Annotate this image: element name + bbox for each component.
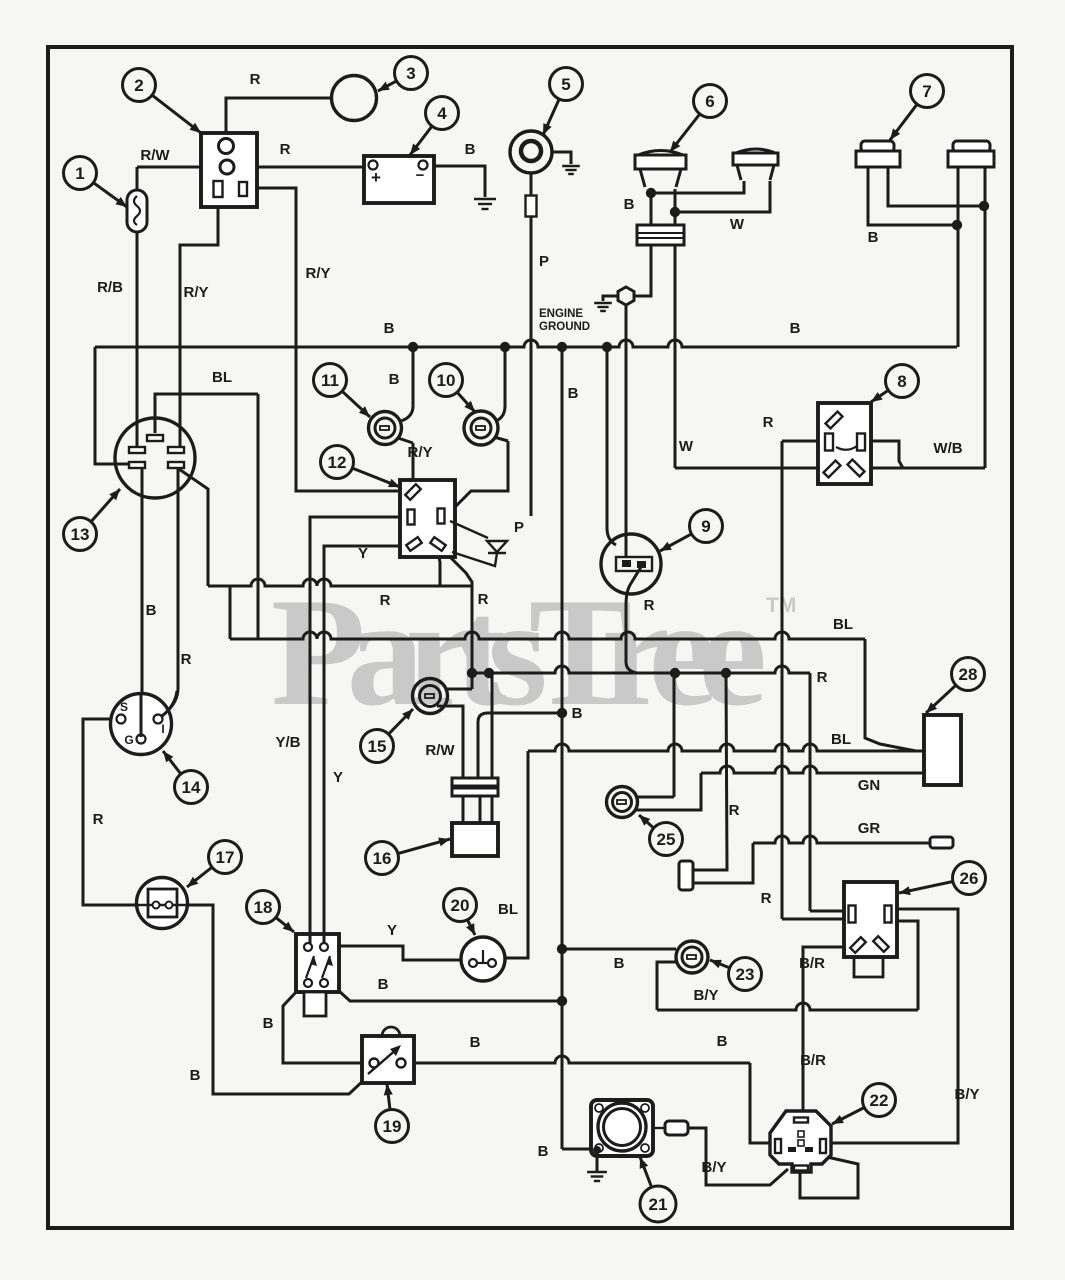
wire R/Y: lamp 11 to module 12 — [398, 438, 413, 443]
callout 25 — [650, 823, 683, 856]
callout 2 — [123, 69, 156, 102]
callout 4 — [426, 97, 459, 130]
svg-text:21: 21 — [649, 1195, 668, 1214]
bulb 25 — [607, 787, 638, 818]
svg-text:16: 16 — [373, 849, 392, 868]
horn 3 — [332, 76, 377, 121]
svg-text:B: B — [263, 1015, 274, 1032]
callout 12 — [321, 446, 354, 479]
svg-text:R: R — [817, 669, 828, 686]
svg-text:Y: Y — [333, 769, 343, 786]
relay 17 — [137, 878, 188, 929]
key switch 14 — [111, 694, 172, 755]
starter switch 26 — [844, 882, 897, 957]
hour meter connector — [665, 1121, 688, 1135]
svg-text:B: B — [572, 705, 583, 722]
svg-text:2: 2 — [134, 76, 143, 95]
wire R: long vertical from switch 8 down to starter switch 26 — [781, 441, 784, 919]
module 12 — [400, 480, 455, 557]
svg-text:B/Y: B/Y — [701, 1159, 726, 1176]
callout 9 — [690, 510, 723, 543]
bulb 10 — [464, 411, 498, 445]
svg-text:W: W — [679, 438, 694, 455]
svg-text:W/B: W/B — [933, 440, 962, 457]
callout 5 — [550, 68, 583, 101]
wire R horizontal bus H3 y=673 — [472, 666, 810, 673]
ground battery — [474, 198, 496, 200]
svg-text:B: B — [568, 385, 579, 402]
svg-text:Y/B: Y/B — [275, 734, 300, 751]
wire R/Y: regulator pin right to module 12 — [242, 188, 245, 196]
svg-text:G: G — [124, 733, 133, 747]
wire BL horizontal bus H2 y=639 — [230, 632, 865, 639]
svg-text:B/Y: B/Y — [693, 987, 718, 1004]
svg-text:10: 10 — [437, 371, 456, 390]
wire R: connector 13 to key switch 14 I terminal — [177, 468, 180, 688]
svg-text:R: R — [761, 890, 772, 907]
callout 13 — [64, 518, 97, 551]
svg-text:28: 28 — [959, 665, 978, 684]
callout 21 — [640, 1186, 676, 1222]
svg-text:18: 18 — [254, 898, 273, 917]
wire: hex to engine ground — [603, 296, 617, 301]
svg-text:B/R: B/R — [799, 955, 825, 972]
wire Y: module 12 lower pin down to interlock 18 — [324, 546, 412, 934]
svg-text:R: R — [644, 597, 655, 614]
svg-text:B: B — [378, 976, 389, 993]
svg-text:BL: BL — [831, 731, 851, 748]
wire R: connector 13 diag to R bus — [176, 467, 208, 586]
wire R/W: bulb 15 to ignition coil 16 — [437, 706, 463, 779]
bulb 11 — [369, 412, 402, 445]
regulator 28 — [924, 715, 961, 785]
connector tab 16 area — [679, 861, 693, 890]
svg-text:P: P — [514, 519, 524, 536]
wire B: bus to lamp 11 — [412, 347, 415, 408]
svg-text:R/Y: R/Y — [407, 444, 432, 461]
wire W/B: lamp 7 right leg down to light switch 8 — [984, 167, 987, 468]
wire B/Y: hour meter 21 to clutch switch 22 — [688, 1128, 788, 1185]
wire R horizontal bus H1 y=586 — [208, 579, 472, 586]
svg-text:7: 7 — [922, 82, 931, 101]
svg-text:GN: GN — [858, 777, 881, 794]
wire Y: interlock 18 to switch 20 — [339, 946, 462, 960]
callout 23 — [729, 958, 762, 991]
svg-text:23: 23 — [736, 965, 755, 984]
svg-text:BL: BL — [833, 616, 853, 633]
svg-text:1: 1 — [75, 164, 84, 183]
callout 6 — [694, 85, 727, 118]
svg-text:B: B — [538, 1143, 549, 1160]
svg-text:R/B: R/B — [97, 279, 123, 296]
svg-text:12: 12 — [328, 453, 347, 472]
wire B/Y: bulb 23 loop to starter switch 26 — [657, 962, 677, 1010]
wire B: B vertical to bulb 23 — [562, 948, 676, 951]
wire P: coil 5 down to module 12 — [530, 173, 533, 196]
wire R: key switch 14 S to relay 17 — [83, 719, 137, 905]
wire BL horizontal bus H4 y=751 — [528, 744, 916, 751]
wire B/Y: starter switch 26 right to clutch sw 22 — [827, 909, 958, 1143]
fuse link on P wire — [526, 196, 537, 217]
wire B: switch 19 to clutch switch 22 left pin — [413, 1056, 750, 1063]
wire R: regulator top to horn — [226, 98, 332, 140]
relay 9 — [601, 534, 661, 594]
callout 28 — [952, 658, 985, 691]
wire GN: bulb 25 to regulator 28 — [634, 773, 701, 810]
wire BL: H4 left end down to switch 20 — [505, 751, 528, 958]
wire R: bulb 25 to H3 — [637, 796, 674, 799]
svg-text:R/Y: R/Y — [183, 284, 208, 301]
callout 3 — [395, 57, 428, 90]
svg-text:4: 4 — [437, 104, 447, 123]
svg-text:−: − — [416, 167, 425, 184]
headlight 6 left lamp — [638, 151, 683, 156]
wire W: lamp leg down to light switch 8 — [674, 245, 677, 468]
svg-text:GR: GR — [858, 820, 881, 837]
switch 20 — [461, 937, 505, 981]
svg-text:B/R: B/R — [800, 1052, 826, 1069]
wire: block down to engine ground hex — [635, 245, 651, 296]
bulb 15 — [413, 679, 448, 714]
wire B: coil 16 center tap to B vertical — [478, 713, 562, 779]
svg-text:R/Y: R/Y — [305, 265, 330, 282]
callout 17 — [209, 841, 242, 874]
svg-text:B: B — [190, 1067, 201, 1084]
engine ground hex bolt — [618, 287, 634, 305]
svg-text:B: B — [146, 602, 157, 619]
svg-text:15: 15 — [368, 737, 387, 756]
wire: bulb 15 to H3 — [447, 688, 472, 691]
regulator 2 — [201, 133, 257, 207]
svg-text:B: B — [790, 320, 801, 337]
svg-text:B: B — [868, 229, 879, 246]
svg-text:R: R — [181, 651, 192, 668]
svg-text:25: 25 — [657, 830, 676, 849]
svg-text:6: 6 — [705, 92, 714, 111]
headlight 6 connector block — [637, 225, 684, 245]
svg-text:14: 14 — [182, 778, 201, 797]
wire: H4+BL merge into regulator 28 — [916, 750, 924, 753]
svg-text:9: 9 — [701, 517, 710, 536]
callout 16 — [366, 842, 399, 875]
svg-text:R/W: R/W — [140, 147, 170, 164]
svg-text:17: 17 — [216, 848, 235, 867]
ignition unit 16 coil — [452, 778, 498, 786]
wire B: bus to lamp 10 — [504, 347, 507, 408]
svg-text:11: 11 — [321, 371, 339, 390]
svg-text:22: 22 — [870, 1091, 889, 1110]
wire B: taillight 7 legs — [888, 167, 984, 206]
wire R: module 12 diag down to H3 — [446, 553, 472, 586]
svg-text:26: 26 — [960, 869, 979, 888]
headlight 6 right lamp — [736, 149, 775, 153]
svg-text:B: B — [384, 320, 395, 337]
callout 26 — [953, 862, 986, 895]
wire W: headlight pair 6 cross links — [651, 181, 744, 193]
wire Y/B: module 12 mid pin down to interlock 18 — [310, 517, 407, 934]
fuse 1 — [127, 190, 147, 232]
wire BL: H2 right end down to regulator 28 — [865, 639, 916, 751]
wire R: regulator to battery + — [234, 166, 369, 169]
svg-text:B: B — [389, 371, 400, 388]
switch 19 — [382, 1027, 400, 1036]
svg-text:R: R — [280, 141, 291, 158]
wire stub fuse top — [136, 167, 139, 191]
svg-text:5: 5 — [561, 75, 570, 94]
clutch switch 22 — [770, 1111, 831, 1172]
svg-text:19: 19 — [383, 1117, 402, 1136]
taillight 7 left lamp — [861, 141, 894, 152]
wire B: lamp 7 left leg down to bus corner — [957, 167, 960, 347]
callout 20 — [444, 889, 477, 922]
svg-text:3: 3 — [406, 64, 415, 83]
wire R: H3 down to connector tab — [694, 673, 727, 870]
svg-text:GROUND: GROUND — [539, 321, 590, 333]
wire: coil 16 right tap up to H3 — [491, 673, 494, 779]
callout 1 — [64, 157, 97, 190]
wire B: connector 13 to key switch 14 — [141, 468, 144, 712]
wire B: interlock 18 to B vertical — [339, 991, 562, 1001]
svg-text:R: R — [729, 802, 740, 819]
wire B: long vertical to hour meter 21 — [561, 347, 564, 1149]
svg-text:B/Y: B/Y — [954, 1086, 979, 1103]
callout 8 — [886, 365, 919, 398]
svg-text:S: S — [120, 700, 128, 714]
callout 19 — [376, 1110, 409, 1143]
svg-text:I: I — [161, 722, 164, 736]
svg-text:R/W: R/W — [425, 742, 455, 759]
svg-text:B: B — [614, 955, 625, 972]
wire R: H3 right end down to starter switch 26 — [809, 673, 812, 911]
wire: clutch switch 22 bottom loop — [800, 1157, 858, 1198]
wire B: battery - to ground — [428, 166, 485, 197]
ignition coil 5 — [510, 131, 552, 173]
wire BL: connector 13 top to BL bus — [155, 394, 258, 433]
wire bus left end down to connector 13 — [95, 347, 130, 464]
light switch 8 — [818, 403, 871, 484]
callout 7 — [911, 75, 944, 108]
wire R/Y: regulator pin left down to 13 — [180, 197, 218, 448]
svg-text:Y: Y — [358, 545, 368, 562]
svg-text:ENGINE: ENGINE — [539, 308, 583, 320]
wire B: headlight 6 left leg to block — [650, 189, 653, 225]
wire B: relay 9 feed from bus — [607, 347, 616, 545]
wire R: module 12 lower pin to H1 — [438, 553, 440, 586]
callout 11 — [314, 364, 347, 397]
svg-text:B: B — [470, 1034, 481, 1051]
svg-text:R: R — [93, 811, 104, 828]
main B ground bus wire y=347 — [95, 340, 957, 347]
svg-text:W: W — [730, 216, 745, 233]
svg-text:B: B — [624, 196, 635, 213]
interlock switch 18 — [296, 934, 339, 992]
wire R/W: regulator to fuse — [137, 166, 220, 169]
wire R: switch 8 left pin corner — [782, 440, 818, 443]
callout 18 — [247, 891, 280, 924]
wire B: relay 17 right to bottom run — [188, 905, 365, 1094]
svg-text:8: 8 — [897, 372, 906, 391]
wire B: interlock 18 down left to switch 19 — [283, 991, 362, 1063]
svg-text:R: R — [250, 71, 261, 88]
svg-text:B: B — [717, 1033, 728, 1050]
callout 15 — [361, 730, 394, 763]
svg-text:BL: BL — [498, 901, 518, 918]
svg-text:B: B — [465, 141, 476, 158]
wire W/B: switch 8 to lamps — [871, 467, 985, 470]
wire GR: connector tab to plug — [694, 843, 753, 883]
connector 13 — [115, 418, 195, 498]
wire R/B: fuse down to connector 13 — [136, 231, 139, 450]
bulb 23 — [676, 941, 708, 973]
callout 14 — [175, 771, 208, 804]
wire B/R: switch 26 lower pin down to clutch sw 22 — [803, 947, 851, 1111]
svg-text:BL: BL — [212, 369, 232, 386]
wire: relay 9 output down to H3 — [626, 567, 641, 673]
battery 4 — [364, 156, 434, 203]
hour meter 21 — [591, 1100, 653, 1156]
svg-text:R: R — [763, 414, 774, 431]
wire: lamp 10 to module 12 pin — [494, 437, 508, 441]
callout 22 — [863, 1084, 896, 1117]
svg-text:R: R — [380, 592, 391, 609]
svg-text:Y: Y — [387, 922, 397, 939]
svg-text:R: R — [478, 591, 489, 608]
wire stub joining H1 to BL bus — [229, 586, 232, 639]
taillight 7 right lamp — [953, 141, 990, 152]
ground at coil 5 — [552, 152, 571, 164]
svg-text:+: + — [371, 168, 381, 187]
wire: hex down through bus to relay 9 — [625, 305, 628, 557]
GR plug — [930, 837, 953, 848]
diode at module 12 — [450, 521, 488, 538]
svg-text:P: P — [539, 253, 549, 270]
svg-text:20: 20 — [451, 896, 470, 915]
svg-text:13: 13 — [71, 525, 90, 544]
callout 10 — [430, 364, 463, 397]
